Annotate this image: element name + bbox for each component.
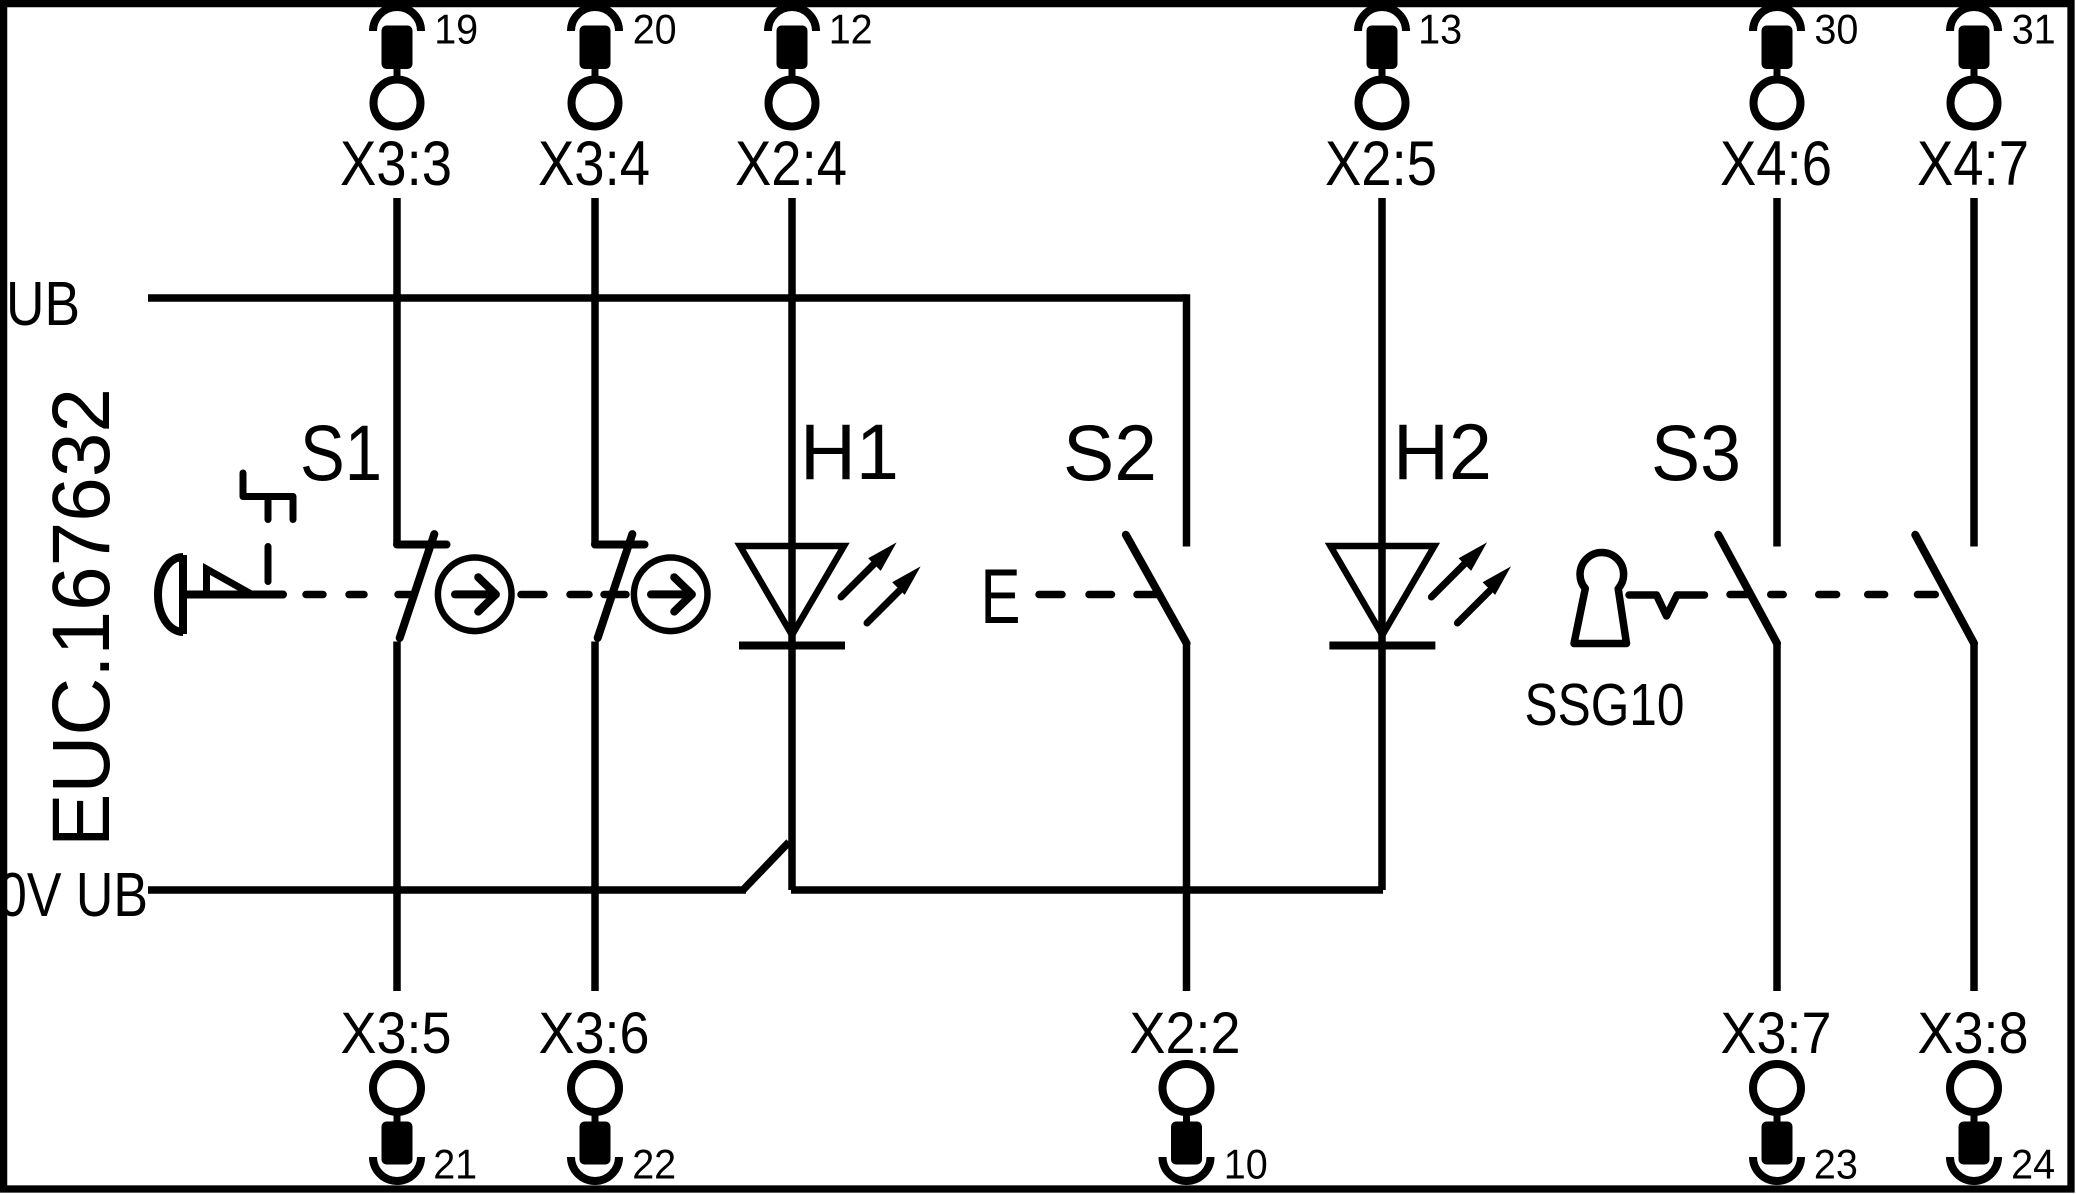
wire S3 contact b down to X3:8 [1970,643,1978,991]
S1 contact b (NC, positive opening) [595,534,645,638]
svg-text:20: 20 [633,6,677,53]
svg-text:X2:4: X2:4 [735,129,847,199]
svg-text:H1: H1 [800,407,899,496]
svg-text:SSG10: SSG10 [1525,672,1685,738]
svg-text:X3:5: X3:5 [341,1001,452,1066]
S1 dashed link between contacts [521,591,626,599]
S1 positive-opening symbol a [438,558,512,632]
svg-text:H2: H2 [1393,407,1492,496]
S2 contact (NO) [1126,535,1187,644]
svg-text:13: 13 [1418,6,1462,53]
bus 0V UB (left segment) [148,886,746,894]
terminal X2:5 pin 13 [1325,6,1462,200]
svg-text:0V UB: 0V UB [0,861,148,930]
terminal X4:6 pin 30 [1720,6,1858,200]
terminal X2:4 pin 12 [735,6,873,200]
S1 positive-opening symbol b [634,558,708,632]
S1 actuator dashed link (vertical) [265,547,272,582]
svg-text:22: 22 [632,1141,676,1188]
svg-text:19: 19 [434,6,478,53]
terminal X3:8 pin 24 [1918,1001,2056,1188]
SSG10 key symbol [1574,552,1627,643]
svg-text:X3:8: X3:8 [1918,1001,2029,1066]
terminal X3:3 pin 19 [340,6,478,200]
svg-text:24: 24 [2011,1141,2055,1188]
wire X3:4 down to S1 contact b [591,198,599,545]
S3 contact b (NO) [1915,535,1974,644]
svg-text:30: 30 [1814,6,1858,53]
S1 latch triangle [207,569,253,595]
svg-text:E: E [981,552,1021,640]
wire X2:4 through H1 to 0V UB [788,198,796,890]
svg-text:S1: S1 [300,408,382,497]
svg-text:21: 21 [433,1141,477,1188]
wire S1 contact b down to X3:6 [591,642,599,992]
svg-text:X4:7: X4:7 [1917,129,2029,199]
wire X2:5 through H2 to 0V UB [1378,198,1386,890]
S1 actuator dashed link to contact a [306,591,410,599]
bus UB [148,294,1187,302]
svg-text:EUC.167632: EUC.167632 [36,388,127,847]
svg-text:S3: S3 [1651,408,1741,497]
S1 turn-to-release symbol [243,473,293,520]
wire S2 contact down to X2:2 [1183,643,1191,991]
svg-text:X3:3: X3:3 [340,129,452,199]
svg-text:X4:6: X4:6 [1720,129,1832,199]
svg-text:UB: UB [6,270,80,339]
svg-text:X3:6: X3:6 [539,1001,650,1066]
S1 emergency stop mushroom head [158,555,283,634]
terminal X4:7 pin 31 [1917,6,2056,200]
S3 contact a (NO) [1718,535,1777,644]
wire X3:3 down to S1 contact a [393,198,401,545]
LED H1 triangle [740,546,844,635]
svg-text:X2:5: X2:5 [1325,129,1437,199]
wire X4:6 down to S3 contact a [1773,198,1781,547]
wire S1 contact a down to X3:5 [393,642,401,992]
svg-text:X3:7: X3:7 [1721,1001,1832,1066]
S3 actuator dashed link [1730,591,1935,599]
terminal X3:4 pin 20 [538,6,677,200]
bus 0V UB (right segment) [791,886,1383,894]
LED H1 cathode bar [739,642,845,650]
svg-text:23: 23 [1814,1141,1858,1188]
svg-text:S2: S2 [1063,408,1157,497]
svg-text:X3:4: X3:4 [538,129,650,199]
SSG10 mechanical link with detent [1629,595,1705,616]
terminal X3:7 pin 23 [1721,1001,1858,1188]
svg-text:31: 31 [2012,6,2056,53]
svg-text:10: 10 [1224,1141,1268,1188]
wire jog diagonal joining H1 branch to 0V UB [743,842,789,890]
wire UB corner down to S2 contact [1183,294,1191,546]
svg-text:12: 12 [829,6,873,53]
S1 contact a (NC, positive opening) [397,534,447,638]
terminal X3:6 pin 22 [539,1001,677,1188]
terminal X2:2 pin 10 [1130,1001,1268,1188]
wire S3 contact a down to X3:7 [1773,643,1781,991]
svg-text:X2:2: X2:2 [1130,1001,1241,1066]
LED H2 light arrows [1431,545,1508,623]
terminal X3:5 pin 21 [341,1001,478,1188]
S2 actuator dashed link [1039,591,1157,599]
LED H2 cathode bar [1329,642,1435,650]
LED H1 light arrows [841,545,918,623]
LED H2 triangle [1330,546,1434,635]
wire X4:7 down to S3 contact b [1970,198,1978,547]
